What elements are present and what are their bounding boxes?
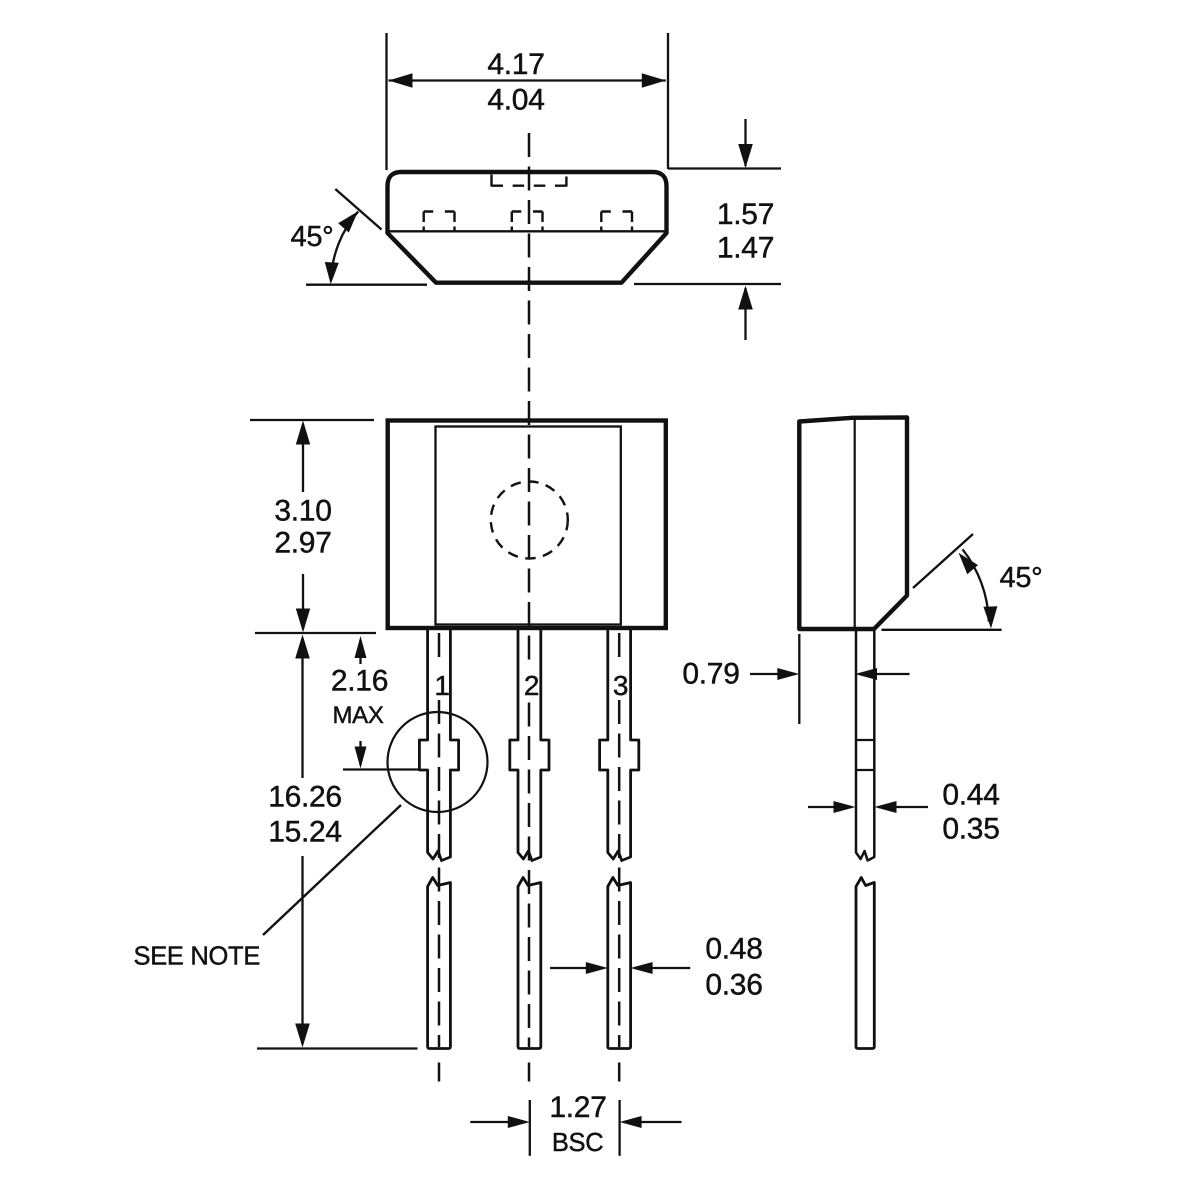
svg-text:45°: 45° [1000,562,1043,594]
svg-text:16.26: 16.26 [268,781,342,814]
svg-text:SEE NOTE: SEE NOTE [134,943,261,971]
side view lead [856,629,874,861]
svg-text:2: 2 [524,670,539,701]
lead length dimension line with arrows [301,638,303,778]
lead pitch extension lines [529,1100,531,1156]
lead number 1 [430,664,448,699]
top view parting line [388,230,667,232]
shoulder dimension lower arrow [359,741,361,765]
lead 1 centerline (dashed) [438,633,441,1047]
chamfer angle arc with arrows (side view) [963,549,989,621]
svg-text:15.24: 15.24 [268,816,342,849]
svg-text:45°: 45° [291,221,334,253]
front view package body outline [388,421,666,629]
top view hidden notch (dashed) [490,175,492,187]
lead thickness dimension arrows (side) [808,806,852,808]
side view bottom reference line [882,629,1002,631]
svg-text:1.57: 1.57 [717,198,774,231]
svg-text:BSC: BSC [552,1129,604,1157]
standoff dimension arrows [750,673,796,675]
thickness dimension lower reference line [634,283,781,285]
svg-text:3: 3 [613,670,628,701]
top view hidden lead tab 3 (dashed) [600,212,602,232]
vertical centerline through top and front views [528,133,531,1047]
lead width dimension arrows (front) [550,967,604,969]
thickness dimension upper arrow [744,119,746,166]
see note leader line [263,805,401,935]
width dimension extension lines [385,33,387,170]
lead 3 centerline (dashed) [618,633,621,1047]
svg-text:0.36: 0.36 [705,969,762,1002]
svg-text:0.48: 0.48 [705,933,762,966]
svg-text:2.97: 2.97 [274,527,331,560]
side view lead edge line [854,419,856,628]
svg-text:2.16: 2.16 [331,665,388,698]
standoff extension line [798,634,800,724]
chamfer angle reference line (side view) [913,534,973,588]
top view package body outline [388,172,667,283]
svg-text:0.44: 0.44 [942,779,999,812]
svg-text:4.04: 4.04 [487,84,544,117]
see note detail circle [388,712,488,812]
svg-text:1.27: 1.27 [549,1091,606,1124]
svg-text:1: 1 [434,670,449,701]
front view face rectangle [436,427,621,625]
body height extension lines [250,419,374,421]
chamfer angle arc with arrows (top view) [331,212,358,281]
lead number 3 [610,664,628,699]
lead pitch dimension arrows [470,1121,526,1123]
shoulder reference line [343,768,418,770]
svg-text:0.35: 0.35 [942,813,999,846]
svg-text:4.17: 4.17 [487,48,544,81]
shoulder dimension upper arrow [359,640,361,664]
top view hidden lead tab 2 (dashed) [511,212,513,232]
width dimension line with arrows [389,79,666,81]
side view package body outline [799,418,907,630]
front view lead 1 [419,630,458,861]
svg-text:1.47: 1.47 [717,232,774,265]
thickness dimension lower arrow [744,288,746,340]
front view lead 2 [510,630,549,861]
svg-text:MAX: MAX [332,702,383,729]
top view hidden lead tab 1 (dashed) [423,212,425,232]
svg-text:0.79: 0.79 [682,658,739,691]
top view bottom reference line (left) [306,284,427,286]
svg-text:3.10: 3.10 [274,495,331,528]
lead number 2 [520,664,538,699]
chamfer angle reference line (top view) [335,189,381,230]
front view hidden circle (dashed) [491,482,568,559]
front view lead 3 [600,630,639,861]
body height dimension line with arrows [302,424,304,492]
lead tip reference line [257,1047,418,1049]
